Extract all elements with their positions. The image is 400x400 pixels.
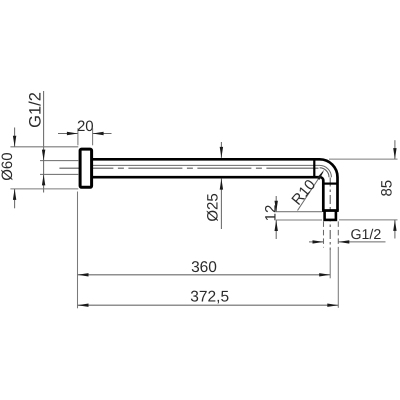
extension line from flange left (wall face) [77,192,79,309]
tube top outline with outer elbow arc [93,159,338,210]
extension line for 372.5 (right end) [337,247,339,308]
dimension 20: line right with arrow [93,133,112,135]
svg-text:20: 20 [77,118,94,135]
tube bottom outline with inner elbow fillet [93,177,323,210]
outlet nipple G1/2 [325,211,336,220]
thread hole line bottom (G1/2 wall side) [40,173,78,175]
dimension Ø60: extension line top [10,146,78,148]
arrow up to thread bottom [42,174,45,185]
dimension G1/2 (outlet) line with outside arrows [309,241,324,243]
dimension Ø60: extension line bottom [10,188,78,190]
dimension 85: line above with arrow [394,140,396,159]
dimension 20: extension line left [77,128,79,145]
dimension 372,5 line [78,304,339,306]
arrow down to thread top [42,150,45,161]
dimension 20: line left with arrow [58,133,78,135]
dimension G1/2 (left, wall connection) leader line [43,91,45,193]
dimension 360 line [78,274,331,276]
dimension Ø25: line above with arrow [220,142,222,158]
elbow seam (vertical joint on horizontal tube) [313,159,315,177]
dimension R10 leader line [298,172,323,211]
centerline (vertical axis of outlet) [329,178,331,251]
arrow left of 360 [78,273,89,276]
centerline (horizontal axis of arm) [59,167,318,169]
dimension 12: line above with arrow [275,196,277,212]
svg-text:G1/2: G1/2 [351,227,382,243]
svg-text:12: 12 [262,205,279,222]
svg-text:Ø60: Ø60 [0,152,16,180]
svg-text:G1/2: G1/2 [27,92,45,128]
thread hole line top (G1/2 wall side) [40,160,78,162]
tube end shoulder cap [322,209,339,212]
dimension 85: line below with arrow [394,220,396,239]
dimension Ø25: line below with arrow [220,179,222,229]
dimension 12: extension line bottom [276,219,322,221]
dimension Ø60: dimension line below with arrow [14,189,16,208]
arrow right of 360 [319,273,330,276]
dimension 85: extension line bottom [339,219,398,221]
wall flange [80,149,92,187]
tube inner highlight line [93,165,331,177]
dimension 12: extension line top [276,211,322,213]
hidden thread line right below nipple [337,221,339,247]
svg-text:360: 360 [191,259,217,276]
elbow seam (horizontal joint on drop tube) [323,183,337,185]
centerline bend arc [320,168,329,177]
extension line from outlet centerline for 360 [329,250,331,278]
dimension 20: extension line right [92,128,94,145]
arrow right of 372,5 [327,304,338,307]
dimension 85: extension line top [329,158,398,160]
dimension 12: line below with arrow [275,220,277,239]
svg-text:85: 85 [379,180,396,197]
R10 arrowhead at bend centerline [317,170,325,180]
arrow left of 372,5 [78,304,89,307]
hidden thread line left below nipple [323,221,325,247]
svg-text:Ø25: Ø25 [204,193,221,221]
dimension Ø60: dimension line above with arrow [14,128,16,147]
svg-text:372,5: 372,5 [190,288,229,305]
